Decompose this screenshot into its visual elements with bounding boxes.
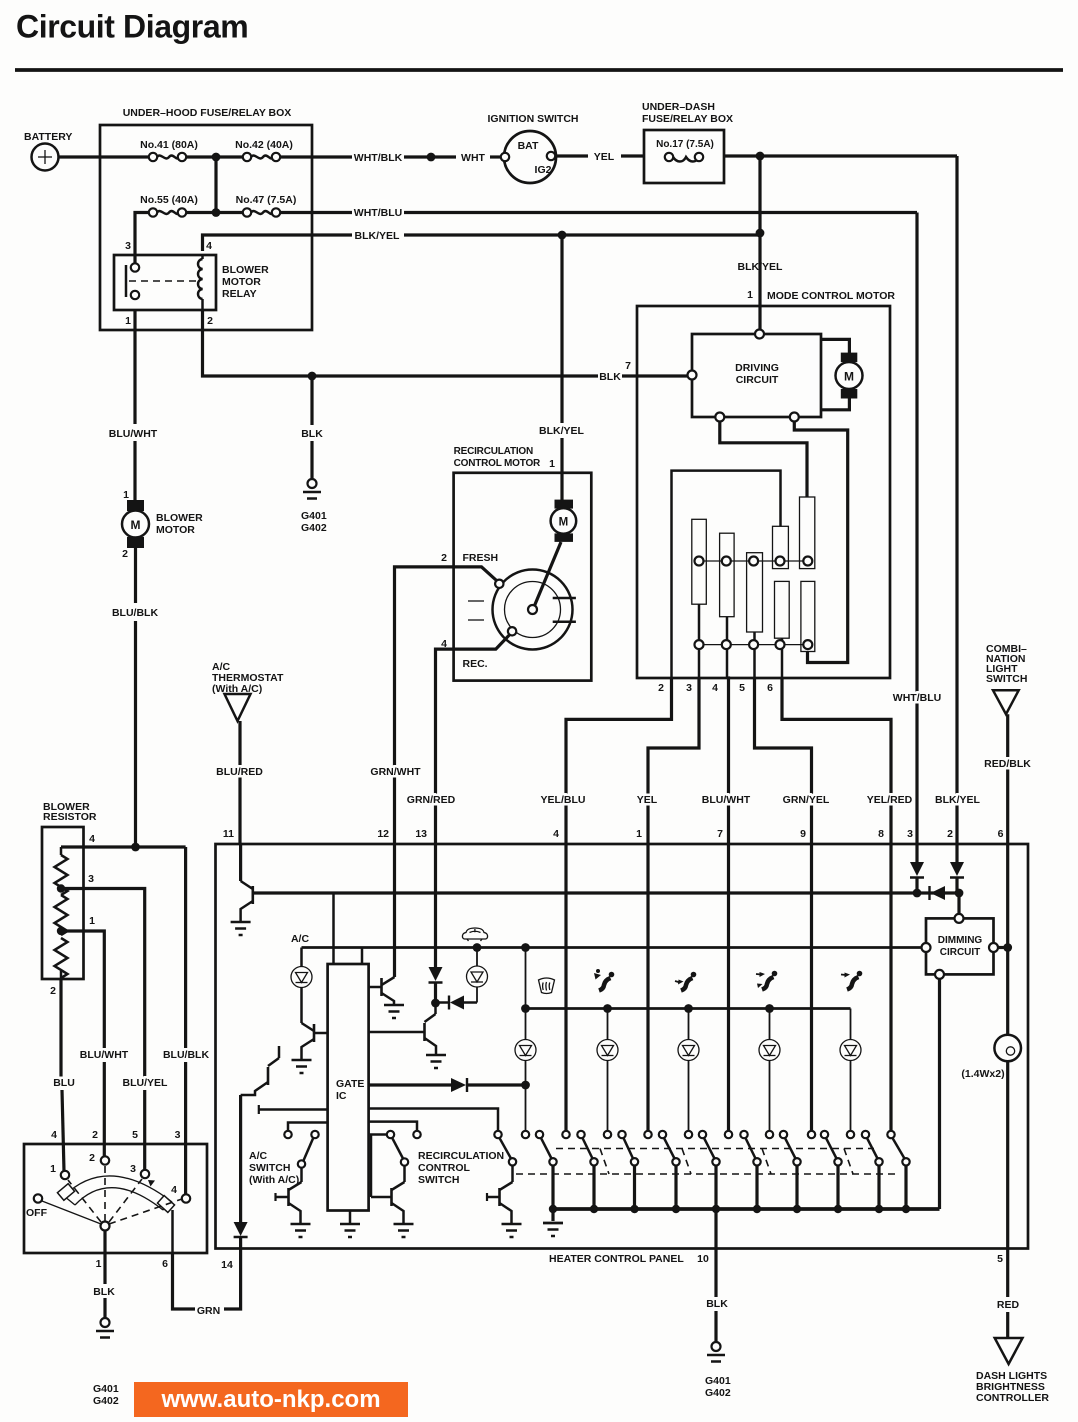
svg-text:5: 5 — [132, 1129, 138, 1141]
svg-text:RECIRCULATION: RECIRCULATION — [454, 446, 533, 457]
dash lights brightness controller — [976, 1338, 1049, 1404]
transistor Q7 (recirc switch) — [371, 1166, 405, 1223]
svg-text:RESISTOR: RESISTOR — [43, 811, 97, 823]
slider S1 — [692, 519, 707, 678]
mode switch c9 — [847, 1131, 883, 1213]
wire panel pin13 into diode D4 — [434, 845, 437, 967]
blower motor M1 — [122, 489, 203, 560]
svg-text:1: 1 — [89, 915, 95, 927]
wire mode pin5 to panel pin9 GRN/YEL — [755, 678, 812, 845]
wire panel pin7 column — [727, 845, 730, 1131]
svg-text:BLK/YEL: BLK/YEL — [539, 425, 585, 437]
wire BLU/BLK resistor pin4 to fan switch 4 — [163, 847, 209, 1195]
svg-text:4: 4 — [553, 828, 559, 840]
banner www.auto-nkp.com — [134, 1382, 408, 1417]
panel top wire labels row1 — [216, 758, 1031, 778]
svg-text:BLU/WHT: BLU/WHT — [109, 428, 158, 440]
recirculation control switch SW3 — [371, 1131, 504, 1197]
svg-text:1: 1 — [96, 1258, 102, 1270]
slider S6 — [775, 581, 790, 678]
transistor Q8 (recirc pole) — [487, 1166, 513, 1224]
wire BLK relay pin2 to driving circuit pin 7 — [203, 310, 689, 383]
svg-text:CIRCUIT: CIRCUIT — [736, 374, 779, 386]
svg-text:BLU/BLK: BLU/BLK — [163, 1049, 209, 1061]
dimming circuit U3 — [922, 914, 999, 979]
lower wiper rail — [695, 640, 813, 649]
svg-text:FRESH: FRESH — [463, 552, 499, 564]
LED A/C indicator — [291, 948, 312, 1024]
battery B1 — [24, 131, 72, 171]
fuse No.42 (40A) — [235, 139, 293, 161]
svg-text:RECIRCULATION: RECIRCULATION — [418, 1150, 504, 1162]
svg-text:GRN/RED: GRN/RED — [407, 794, 456, 806]
wire BLU/BLK blower motor to resistor node — [112, 548, 158, 847]
slider S7 — [801, 581, 815, 651]
svg-text:M: M — [131, 518, 141, 532]
svg-text:3: 3 — [130, 1163, 136, 1175]
wire GRN fan switch pin6 to panel pin14 — [162, 1249, 241, 1318]
transistor Q2 (A/C LED driver) — [302, 1023, 328, 1059]
mechanical linkage (dashed) — [516, 1149, 898, 1175]
car icon — [462, 928, 487, 941]
mode switch c8 — [808, 1131, 842, 1213]
svg-text:BLK: BLK — [599, 371, 621, 383]
mode switch c10 — [887, 1131, 910, 1213]
svg-text:BLOWER: BLOWER — [222, 264, 269, 276]
gate input line with terminal tick — [259, 1105, 328, 1114]
svg-text:CONTROLLER: CONTROLLER — [976, 1392, 1049, 1404]
diode D7 from gate IC to defrost column — [369, 1078, 526, 1092]
svg-text:BLK: BLK — [93, 1286, 115, 1298]
wire riser x760 to mode control motor pin 1 — [738, 156, 784, 330]
svg-text:BLU/WHT: BLU/WHT — [80, 1049, 129, 1061]
svg-text:5: 5 — [997, 1253, 1003, 1265]
transistor Q6 (A/C switch) — [276, 1168, 302, 1223]
wire WHT/BLU fuse47 right to riser x917 — [280, 207, 917, 845]
svg-text:WHT: WHT — [461, 152, 485, 164]
svg-text:UNDER–DASH: UNDER–DASH — [642, 101, 715, 113]
svg-text:G402: G402 — [705, 1387, 731, 1399]
svg-text:1: 1 — [549, 458, 555, 470]
transistor Q4 (recirc driver) — [369, 1003, 436, 1054]
defrost icon — [539, 978, 555, 994]
svg-text:G401: G401 — [705, 1375, 731, 1387]
ground for Q8 — [502, 1224, 522, 1237]
fuse No.55 (40A) — [140, 194, 198, 217]
svg-text:M: M — [559, 517, 569, 529]
wire mode pin6 to panel pin8 YEL/RED — [782, 678, 891, 845]
wire panel pin4 column — [564, 845, 567, 1131]
svg-text:BLU: BLU — [53, 1077, 75, 1089]
mode pin labels 2 3 4 5 6 — [658, 682, 773, 694]
svg-text:(With A/C): (With A/C) — [249, 1174, 299, 1186]
panel pin11 wire into Q11 — [239, 845, 242, 881]
mode switch c1 — [522, 1131, 557, 1213]
ground for Q6 — [291, 1224, 311, 1237]
svg-text:3: 3 — [907, 828, 913, 840]
svg-text:FUSE/RELAY BOX: FUSE/RELAY BOX — [642, 113, 733, 125]
wire panel pin8 column — [889, 845, 892, 1131]
svg-text:HEATER CONTROL PANEL: HEATER CONTROL PANEL — [549, 1253, 684, 1265]
svg-text:2: 2 — [441, 552, 447, 564]
mode motor M2 — [821, 339, 863, 409]
ground G401/G402 (top) — [301, 479, 327, 534]
wire node fuse55-fuse47 — [186, 208, 243, 217]
slider S3 — [747, 553, 763, 678]
svg-text:M: M — [844, 370, 854, 384]
wire gate IC to recirc switch right terminal — [369, 1122, 417, 1131]
svg-text:1: 1 — [123, 489, 129, 501]
svg-text:G401: G401 — [301, 510, 327, 522]
mode switch c3 — [604, 1131, 639, 1213]
svg-text:SWITCH: SWITCH — [418, 1174, 459, 1186]
transistor Q3 (fresh position) — [369, 977, 395, 1004]
fan switch terminals — [26, 1152, 190, 1219]
svg-text:3: 3 — [686, 682, 692, 694]
svg-text:REC.: REC. — [463, 658, 488, 670]
svg-text:2: 2 — [92, 1129, 98, 1141]
svg-text:MOTOR: MOTOR — [156, 524, 195, 536]
svg-text:2: 2 — [89, 1152, 95, 1164]
svg-text:13: 13 — [415, 828, 427, 840]
svg-text:2: 2 — [122, 548, 128, 560]
svg-text:No.41 (80A): No.41 (80A) — [140, 139, 198, 151]
diode D3 (left pointing) between nodes — [930, 886, 946, 900]
wire YEL ignition to under-dash fuse box — [555, 151, 644, 163]
recirculation control motor box — [454, 446, 592, 681]
svg-text:10: 10 — [697, 1253, 709, 1265]
svg-text:GRN: GRN — [197, 1305, 220, 1317]
mode control motor box — [637, 289, 895, 678]
LED mode 3 — [678, 1009, 699, 1132]
svg-text:No.47 (7.5A): No.47 (7.5A) — [236, 194, 297, 206]
svg-text:4: 4 — [51, 1129, 57, 1141]
wire mode pin2 to panel pin4 YEL/BLU — [566, 678, 672, 845]
svg-text:14: 14 — [221, 1259, 233, 1271]
svg-text:1: 1 — [747, 289, 753, 301]
svg-text:GRN/WHT: GRN/WHT — [370, 766, 421, 778]
LED mode 4 — [759, 1009, 780, 1132]
wire WHT/BLK fuse42 to ignition — [280, 152, 502, 164]
wire gate IC to switch c0 top — [369, 1109, 498, 1132]
svg-text:G402: G402 — [301, 522, 327, 534]
diode D5 (left pointing) to node — [436, 996, 478, 1010]
wire panel pin1 column — [646, 845, 649, 1131]
svg-text:4: 4 — [206, 240, 212, 252]
svg-text:RED/BLK: RED/BLK — [984, 758, 1031, 770]
svg-text:WHT/BLU: WHT/BLU — [893, 692, 941, 704]
svg-text:GRN/YEL: GRN/YEL — [783, 794, 830, 806]
svg-text:IG2: IG2 — [535, 164, 552, 176]
svg-text:A/C: A/C — [291, 933, 310, 945]
svg-text:Circuit Diagram: Circuit Diagram — [16, 9, 248, 45]
svg-text:BLU/BLK: BLU/BLK — [112, 607, 158, 619]
svg-text:BLU/RED: BLU/RED — [216, 766, 263, 778]
svg-text:BAT: BAT — [518, 140, 539, 152]
gate IC ground — [340, 1211, 360, 1238]
svg-text:MODE CONTROL MOTOR: MODE CONTROL MOTOR — [767, 290, 895, 302]
svg-text:BLU/YEL: BLU/YEL — [123, 1077, 169, 1089]
diode D4 (down) on pin13 column — [429, 967, 443, 1007]
svg-text:DRIVING: DRIVING — [735, 362, 779, 374]
panel top pin numbers — [223, 828, 1004, 840]
wire pin14 column down to diode — [239, 1095, 242, 1222]
wire rail riser x333.5 from y893 to gate IC — [332, 893, 335, 964]
wire BLK/YEL relay pin4 riser and run right to node 562 — [203, 230, 761, 251]
wire resistor pin1 BLU/WHT to fan switch 2 — [61, 931, 129, 1157]
svg-text:3: 3 — [175, 1129, 181, 1141]
svg-text:BLK: BLK — [706, 1298, 728, 1310]
LED mode 2 — [597, 1009, 618, 1132]
svg-text:RED: RED — [997, 1299, 1020, 1311]
mode switch c6 — [725, 1131, 761, 1213]
svg-text:BATTERY: BATTERY — [24, 131, 72, 143]
wire driving pin to slider S5 — [720, 422, 807, 498]
wire resistor pin2 BLU to fan switch 1 — [53, 979, 75, 1171]
panel top wire labels row2 — [407, 794, 981, 806]
wire rail to gate IC riser x362 — [361, 948, 364, 965]
svg-text:7: 7 — [625, 360, 631, 372]
svg-text:(1.4Wx2): (1.4Wx2) — [961, 1068, 1004, 1080]
wire pin10 to ground — [706, 1209, 728, 1342]
wire resistor pin4 bus (node with blower motor wire) — [61, 843, 186, 852]
mode switch c5 — [685, 1131, 720, 1213]
mode icon heat-defrost person — [594, 969, 614, 991]
switch c0 (recirc second pole) — [494, 1131, 516, 1166]
slider S2 — [720, 533, 735, 678]
ground for Q4 — [426, 1055, 446, 1068]
wire defrost LED to switch c1 — [521, 1061, 530, 1132]
svg-text:BLK/YEL: BLK/YEL — [935, 794, 981, 806]
svg-text:3: 3 — [125, 240, 131, 252]
diode D2 on BLK/YEL column — [950, 845, 964, 893]
fan switch rotary wiper — [42, 1166, 182, 1253]
wire FRESH pin2 to panel pin12 — [395, 552, 499, 845]
svg-text:No.55 (40A): No.55 (40A) — [140, 194, 198, 206]
under-dash fuse/relay box — [642, 101, 733, 183]
blower resistor R1 — [42, 801, 97, 997]
mode icon vent person — [841, 971, 862, 990]
svg-text:4: 4 — [712, 682, 718, 694]
svg-text:A/C: A/C — [249, 1150, 268, 1162]
transistor Q11 — [241, 881, 253, 921]
svg-text:CONTROL: CONTROL — [418, 1162, 470, 1174]
svg-text:BLK: BLK — [301, 428, 323, 440]
svg-text:6: 6 — [767, 682, 773, 694]
under-hood fuse/relay box — [100, 107, 312, 330]
wire node fuse41-fuse42 — [186, 153, 243, 213]
svg-text:5: 5 — [739, 682, 745, 694]
svg-text:7: 7 — [717, 828, 723, 840]
mode switch c4 — [644, 1131, 680, 1213]
svg-text:SWITCH: SWITCH — [249, 1162, 290, 1174]
title rule — [15, 68, 1063, 72]
svg-text:4: 4 — [89, 833, 95, 845]
wire REC pin4 to panel pin13 — [436, 635, 510, 845]
diode D6 on pin14 wire — [234, 1222, 248, 1249]
fuse No.41 (80A) — [140, 139, 198, 161]
wire fuse55 left to relay pin 3 — [135, 213, 149, 264]
mode icon heat person — [675, 972, 696, 991]
svg-text:G401: G401 — [93, 1383, 119, 1395]
svg-text:YEL/BLU: YEL/BLU — [541, 794, 586, 806]
upper wiper rail — [695, 557, 813, 566]
wire battery to fuse 41 — [58, 155, 149, 158]
blower motor relay RY1 — [114, 240, 269, 327]
svg-text:9: 9 — [800, 828, 806, 840]
svg-text:BLOWER: BLOWER — [156, 512, 203, 524]
svg-text:OFF: OFF — [26, 1207, 48, 1219]
mode switch c7 — [766, 1131, 801, 1213]
svg-text:12: 12 — [377, 828, 389, 840]
svg-text:BLK/YEL: BLK/YEL — [355, 230, 401, 242]
wire RED/BLK column to bulb — [1006, 845, 1009, 1035]
svg-text:IC: IC — [336, 1090, 347, 1102]
svg-text:3: 3 — [88, 873, 94, 885]
ground for Q3 — [384, 1005, 404, 1018]
recirc motor M3 — [534, 500, 577, 608]
svg-text:G402: G402 — [93, 1395, 119, 1407]
svg-text:1: 1 — [125, 315, 131, 327]
svg-text:2: 2 — [50, 985, 56, 997]
svg-text:8: 8 — [878, 828, 884, 840]
LED recirc indicator (car) — [467, 948, 488, 1003]
wire BLU/WHT relay pin1 to blower motor — [109, 310, 158, 500]
wire BLK/YEL node562 to recirc motor — [539, 235, 585, 500]
wire A/C switch left terminal to gate IC — [288, 1123, 328, 1132]
diode D1 on WHT/BLU column — [910, 845, 924, 893]
bus (switch common) — [553, 1207, 940, 1211]
svg-text:YEL/RED: YEL/RED — [867, 794, 913, 806]
svg-text:2: 2 — [947, 828, 953, 840]
A/C switch SW2 — [249, 1131, 319, 1186]
svg-text:1: 1 — [636, 828, 642, 840]
ground for Q7 — [394, 1224, 414, 1237]
svg-text:11: 11 — [223, 828, 234, 840]
svg-text:2: 2 — [658, 682, 664, 694]
wire mode pin4 to panel pin7 BLU/WHT — [727, 678, 729, 845]
svg-text:MOTOR: MOTOR — [222, 276, 261, 288]
svg-text:BLU/WHT: BLU/WHT — [702, 794, 751, 806]
fuse No.47 (7.5A) — [236, 194, 297, 217]
wire RED to dash lights brightness controller — [997, 1249, 1020, 1339]
heater control panel box — [216, 844, 1029, 1271]
LED mode 5 — [840, 1040, 861, 1132]
wire riser to dimming circuit top pin — [957, 893, 960, 914]
recirc rotary switch — [468, 570, 576, 650]
mode switch c2 — [562, 1131, 598, 1213]
svg-text:YEL: YEL — [637, 794, 658, 806]
wire panel pin12 into Q3 collector — [393, 845, 396, 977]
wire resistor pin3 BLU/YEL to fan switch 3 — [61, 889, 168, 1171]
wire bus y947.5 (illumination rail) — [302, 943, 922, 952]
wire fan switch common pin1 to ground — [93, 1230, 115, 1318]
wire mode pin3 to panel pin1 YEL — [648, 678, 699, 845]
svg-text:BLK/YEL: BLK/YEL — [738, 261, 784, 273]
LED defrost — [515, 1040, 536, 1061]
svg-text:CIRCUIT: CIRCUIT — [940, 947, 981, 958]
svg-text:UNDER–HOOD FUSE/RELAY BOX: UNDER–HOOD FUSE/RELAY BOX — [123, 107, 292, 119]
svg-text:No.17 (7.5A): No.17 (7.5A) — [656, 139, 714, 150]
heater fan switch box — [24, 1129, 207, 1253]
svg-text:YEL: YEL — [594, 151, 615, 163]
svg-text:No.42 (40A): No.42 (40A) — [235, 139, 293, 151]
ignition switch SW1 — [488, 113, 579, 183]
wire mode pin 2 feed to slider S4 — [672, 471, 781, 678]
driving circuit U2 — [688, 330, 822, 422]
svg-text:6: 6 — [162, 1258, 168, 1270]
slider S5 — [800, 497, 815, 569]
wire dimming right pin to RED/BLK column — [998, 943, 1012, 952]
ground G401/G402 (fan switch) — [93, 1318, 119, 1407]
svg-text:1: 1 — [50, 1163, 56, 1175]
wire BLK drop to ground G401/G402 — [301, 376, 323, 479]
combination light switch — [986, 643, 1027, 845]
ground for Q2 — [292, 1060, 312, 1073]
ground G401/G402 (panel) — [705, 1342, 731, 1399]
ground for Q11 — [231, 922, 251, 935]
wire BLK/YEL riser x957 down to control panel pin 2 — [955, 156, 958, 845]
gate IC U1 — [328, 964, 369, 1211]
slider S4 — [773, 526, 789, 568]
svg-text:GATE: GATE — [336, 1078, 364, 1090]
mode icon bi-level person — [756, 971, 777, 990]
ground at bus start — [543, 1209, 563, 1236]
svg-text:DIMMING: DIMMING — [938, 935, 983, 946]
wire fuse17 to right riser, node at 760 — [724, 152, 957, 161]
svg-text:WHT/BLU: WHT/BLU — [354, 207, 402, 219]
transistor Q5 (pin14) — [241, 1046, 279, 1095]
A/C thermostat — [212, 661, 284, 845]
svg-text:IGNITION SWITCH: IGNITION SWITCH — [488, 113, 579, 125]
svg-text:4: 4 — [171, 1184, 177, 1196]
svg-text:RELAY: RELAY — [222, 288, 257, 300]
wire panel pin9 column — [810, 845, 813, 1131]
svg-text:CONTROL MOTOR: CONTROL MOTOR — [454, 458, 541, 469]
illumination bulb (1.4Wx2) — [961, 1035, 1021, 1249]
wire bus y893 Q11 base to diode nodes — [253, 889, 964, 898]
svg-text:6: 6 — [998, 828, 1004, 840]
defrost LED column riser — [521, 948, 530, 1041]
wire driving pin to slider S7 — [794, 422, 847, 663]
svg-text:2: 2 — [207, 315, 213, 327]
wire bus to dimming circuit bottom pin — [938, 979, 941, 1209]
svg-text:WHT/BLK: WHT/BLK — [354, 152, 403, 164]
fuse No.17 (7.5A) — [656, 139, 714, 162]
svg-text:SWITCH: SWITCH — [986, 673, 1027, 685]
LED rail y1008.5 — [526, 1004, 851, 1040]
